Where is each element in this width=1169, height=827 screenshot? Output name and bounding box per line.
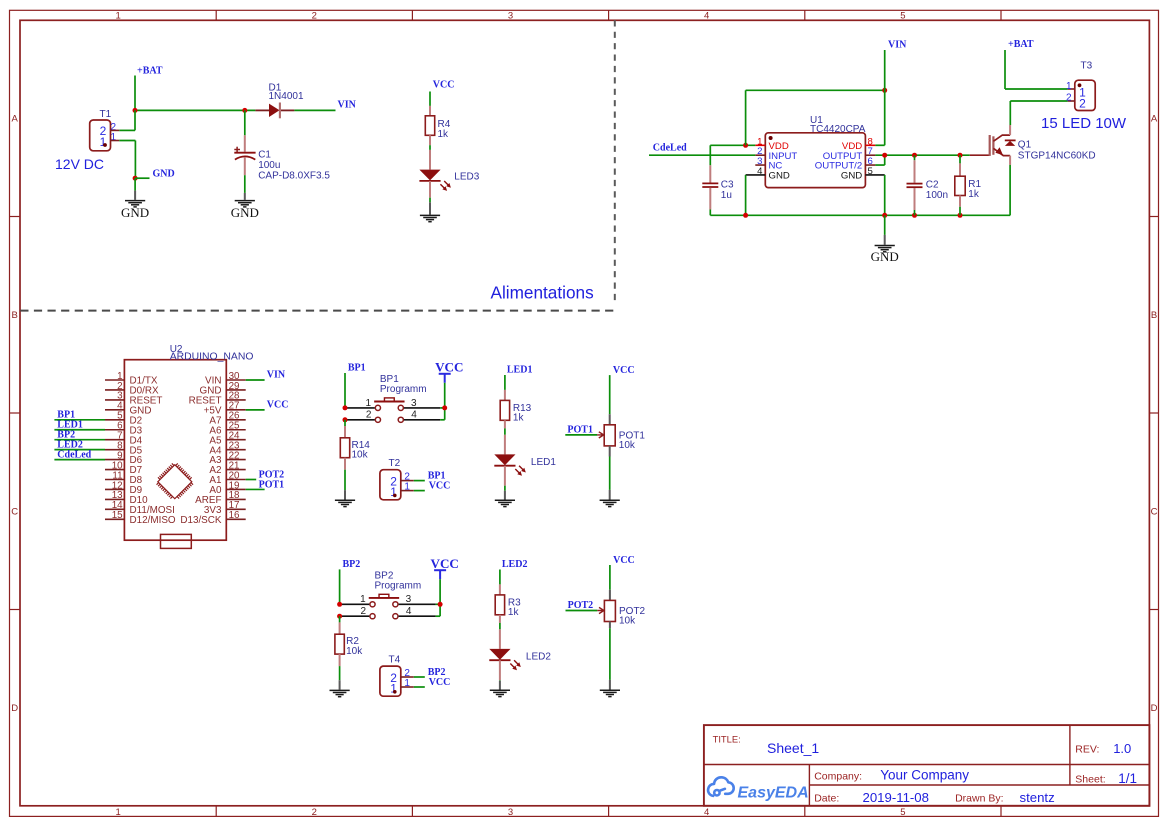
svg-text:POT2: POT2 — [568, 600, 594, 611]
svg-text:1k: 1k — [438, 129, 450, 140]
button contact wires — [345, 408, 445, 420]
wire GND stub — [135, 177, 149, 179]
svg-text:A: A — [12, 114, 19, 125]
svg-text:3: 3 — [508, 11, 513, 22]
connector T4 — [380, 655, 414, 697]
svg-text:2: 2 — [312, 11, 317, 22]
net label CdeLed (U2) — [57, 449, 91, 460]
net label VCC (T2) — [429, 481, 451, 492]
svg-text:C3: C3 — [721, 179, 734, 190]
svg-text:1u: 1u — [721, 190, 732, 201]
wire diode to VIN — [294, 109, 335, 111]
svg-text:CAP-D8.0XF3.5: CAP-D8.0XF3.5 — [258, 171, 330, 182]
svg-text:VCC: VCC — [429, 677, 451, 688]
svg-text:2: 2 — [312, 807, 317, 818]
wire net POT1 (U2 pin19) — [246, 488, 265, 490]
wire U1 pin5 to gnd rail — [884, 175, 886, 215]
svg-text:VIN: VIN — [267, 369, 286, 380]
net label BP1 (button) — [348, 363, 366, 374]
Q1 emitter lead and wire to rail — [1009, 156, 1011, 216]
resistor R14 10k — [340, 420, 370, 470]
svg-text:4: 4 — [704, 807, 709, 818]
U1 pin 4 stub — [746, 174, 766, 176]
potentiometer POT2 10k — [597, 590, 645, 629]
net label BP2 (button) — [343, 559, 361, 570]
svg-text:15: 15 — [112, 510, 123, 521]
junction at +BAT/main — [133, 108, 138, 113]
svg-text:Sheet:: Sheet: — [1075, 774, 1105, 786]
junction rail R1 — [958, 213, 963, 218]
wire net VIN (U2 pin30) — [246, 379, 265, 381]
wire net POT2 (U2 pin20) — [246, 479, 257, 481]
op-amp driver U1 TC4420CPA — [757, 115, 873, 188]
svg-text:POT1: POT1 — [259, 479, 285, 490]
ground symbol R14 — [335, 470, 355, 507]
junction GND node — [133, 176, 138, 181]
net label VCC (POT1) — [613, 365, 635, 376]
svg-text:Drawn By:: Drawn By: — [955, 793, 1003, 805]
net label VIN (U1) — [888, 39, 907, 50]
svg-text:ARDUINO_NANO: ARDUINO_NANO — [170, 351, 254, 362]
junction output/2 — [882, 153, 887, 158]
svg-text:2019-11-08: 2019-11-08 — [863, 790, 929, 805]
resistor R4 1k — [425, 106, 450, 145]
net label CdeLed (U1) — [653, 143, 687, 154]
svg-text:A: A — [1151, 114, 1158, 125]
svg-text:LED2: LED2 — [502, 559, 528, 570]
U1 pin 8 stub — [865, 144, 884, 146]
net label POT1 (wiper) — [567, 424, 593, 435]
svg-text:1: 1 — [404, 678, 410, 689]
junction button right — [438, 602, 443, 607]
svg-text:VCC: VCC — [267, 399, 289, 410]
svg-text:1: 1 — [115, 11, 120, 22]
svg-text:D13/SCK: D13/SCK — [180, 515, 222, 526]
net label LED2 (U2) — [57, 439, 83, 450]
ground symbol LED1 — [495, 486, 515, 507]
wire T1 pin2 to +BAT — [119, 110, 135, 130]
svg-text:T1: T1 — [100, 109, 112, 120]
wire CdeLed to U1 pin2 — [649, 154, 755, 156]
button contact wires — [340, 604, 441, 616]
resistor R1 1k — [955, 155, 982, 215]
svg-text:1k: 1k — [513, 413, 525, 424]
svg-text:2: 2 — [1079, 96, 1086, 110]
U1 pin 1 stub — [755, 144, 765, 146]
wire BP2 vertical — [339, 569, 341, 604]
svg-text:GND: GND — [231, 205, 259, 220]
svg-text:VIN: VIN — [338, 99, 357, 110]
power symbol VCC (button) — [435, 359, 463, 382]
junction pin1/VDD — [743, 143, 748, 148]
net label LED1 (U2) — [57, 420, 83, 431]
wire R13 to LED1 LED — [504, 428, 506, 434]
U1 pin 2 stub — [755, 154, 765, 156]
junction button left 1 — [343, 405, 348, 410]
svg-text:C: C — [11, 507, 18, 518]
net label VCC (U2) — [267, 399, 289, 410]
wire U1 pin1 VDD left — [710, 144, 755, 146]
wire BP1 vertical — [344, 373, 346, 408]
transistor Q1 STGP14NC60KD IGBT — [970, 135, 1096, 161]
wire VCC to POT2 — [609, 565, 611, 590]
net label POT2 (wiper) — [568, 600, 594, 611]
wire net BP1 (U2 pin 5) — [54, 419, 105, 421]
capacitor C2 100n — [907, 155, 949, 215]
wire T1 pin1 to GND — [119, 141, 135, 179]
svg-text:1: 1 — [115, 807, 120, 818]
svg-text:GND: GND — [121, 205, 149, 220]
wire T4 pin2 — [414, 676, 425, 678]
svg-text:Your Company: Your Company — [880, 768, 969, 783]
wire R3 to LED2 LED — [499, 623, 501, 629]
ground symbol C1 with GND text — [231, 175, 259, 220]
label Alimentations — [491, 283, 594, 303]
wire net LED1 (U2 pin 6) — [54, 429, 105, 431]
ground symbol T1 with GND text — [121, 178, 149, 220]
svg-text:3: 3 — [508, 807, 513, 818]
svg-text:1/1: 1/1 — [1118, 771, 1137, 786]
svg-text:VCC: VCC — [431, 556, 459, 571]
svg-text:T2: T2 — [389, 458, 401, 469]
net label POT2 (U2) — [259, 470, 285, 481]
net label VIN — [338, 99, 357, 110]
potentiometer POT1 10k — [597, 414, 645, 456]
capacitor C1 100u polarized — [234, 110, 330, 181]
net label LED1 (column) — [507, 364, 533, 375]
wire +BAT to T3 pin1 — [1005, 50, 1068, 89]
svg-text:REV:: REV: — [1075, 744, 1099, 756]
svg-text:TITLE:: TITLE: — [713, 733, 741, 744]
junction rail C3 — [743, 213, 748, 218]
svg-text:BP2: BP2 — [343, 559, 361, 570]
ground symbol POT1 — [600, 500, 620, 506]
microcontroller U2 ARDUINO_NANO — [105, 344, 253, 540]
svg-text:Programm: Programm — [380, 384, 427, 395]
wire net VCC (U2 pin27) — [246, 409, 265, 411]
resistor R3 1k — [495, 584, 521, 623]
svg-text:POT1: POT1 — [567, 424, 593, 435]
svg-text:2: 2 — [1066, 93, 1072, 104]
wire T2 pin2 — [414, 480, 425, 482]
svg-text:LED1: LED1 — [531, 457, 556, 468]
U2 usb tab — [161, 534, 192, 548]
net label LED2 (column) — [502, 559, 528, 570]
svg-text:10k: 10k — [352, 450, 369, 461]
Q1 collector lead — [1009, 125, 1011, 135]
svg-text:1k: 1k — [968, 189, 980, 200]
junction output C2 — [912, 153, 917, 158]
wire T4 pin1 — [414, 686, 425, 688]
svg-text:VCC: VCC — [435, 359, 463, 374]
net label BP1 (U2) — [57, 410, 75, 421]
svg-text:GND: GND — [769, 171, 790, 182]
LED LED3 — [419, 150, 479, 198]
svg-text:LED2: LED2 — [526, 651, 551, 662]
svg-text:STGP14NC60KD: STGP14NC60KD — [1018, 150, 1096, 161]
U1 pin 3 stub (NC) — [755, 164, 765, 166]
wire T2 pin1 — [414, 490, 425, 492]
pushbutton BP1 Programm — [366, 374, 427, 423]
junction rail gnd — [882, 213, 887, 218]
svg-text:1: 1 — [111, 132, 117, 143]
svg-text:100n: 100n — [926, 190, 948, 201]
svg-text:CdeLed: CdeLed — [653, 143, 687, 154]
connector T3 15 LED 10W — [1041, 60, 1127, 132]
wire VIN vertical — [884, 50, 886, 145]
svg-text:Programm: Programm — [375, 580, 422, 591]
wire T3 pin2 to Q1 collector — [1010, 101, 1068, 125]
junction button right — [442, 405, 447, 410]
svg-text:1: 1 — [390, 681, 397, 695]
svg-text:B: B — [1151, 310, 1157, 321]
wire VCC to R4 — [429, 92, 431, 106]
connector T1 12V DC — [55, 109, 119, 172]
svg-text:D12/MISO: D12/MISO — [130, 515, 176, 526]
wire wiper POT1 — [565, 434, 597, 436]
svg-text:Alimentations: Alimentations — [491, 283, 594, 303]
wire LED1 to R13 — [504, 375, 506, 390]
junction button left 2 — [343, 417, 348, 422]
junction VIN top — [882, 88, 887, 93]
svg-text:T3: T3 — [1081, 60, 1093, 71]
svg-text:VCC: VCC — [613, 365, 635, 376]
junction output R1 — [958, 153, 963, 158]
svg-text:EasyEDA: EasyEDA — [738, 784, 809, 801]
svg-text:10k: 10k — [619, 616, 636, 627]
diode D1 1N4001 — [255, 83, 304, 119]
capacitor C3 1u — [702, 145, 734, 215]
svg-text:15 LED 10W: 15 LED 10W — [1041, 115, 1127, 132]
ground symbol U1 with GND text — [871, 215, 899, 264]
wire VCC to POT1 — [609, 375, 611, 414]
wire U1 pin4 to gnd rail — [745, 175, 747, 215]
svg-text:B: B — [12, 310, 18, 321]
junction rail C2 — [912, 213, 917, 218]
svg-text:VCC: VCC — [613, 555, 635, 566]
net label +BAT (T3) — [1008, 39, 1034, 50]
svg-text:16: 16 — [229, 510, 240, 521]
junction button left 1 — [337, 602, 342, 607]
wire wiper POT2 — [566, 610, 598, 612]
wire OUTPUT net — [875, 155, 969, 165]
svg-text:C: C — [1151, 507, 1158, 518]
svg-text:1k: 1k — [508, 607, 520, 618]
ground symbol POT2 — [600, 690, 620, 696]
svg-text:1: 1 — [1066, 81, 1072, 92]
svg-text:CdeLed: CdeLed — [57, 449, 91, 460]
resistor R2 10k — [335, 616, 363, 666]
svg-text:1.0: 1.0 — [1113, 741, 1131, 756]
svg-text:VCC: VCC — [429, 481, 451, 492]
net label +BAT — [137, 66, 163, 77]
svg-text:C1: C1 — [258, 150, 271, 161]
svg-text:GND: GND — [153, 169, 175, 180]
svg-text:BP1: BP1 — [348, 363, 366, 374]
net label BP1 (T2) — [428, 471, 446, 482]
title block — [704, 725, 1150, 806]
net label VIN (U2) — [267, 369, 286, 380]
wire POT2 to ground — [609, 628, 611, 689]
junction button left 2 — [337, 614, 342, 619]
svg-text:GND: GND — [871, 249, 899, 264]
net label VCC (T4) — [429, 677, 451, 688]
U1 pin 5 stub — [865, 174, 884, 176]
wire POT1 to ground — [609, 457, 611, 500]
net label BP2 (U2) — [57, 430, 75, 441]
wire net BP2 (U2 pin 7) — [54, 439, 105, 441]
ground symbol LED3 — [420, 198, 440, 222]
U1 pin 7 stub — [865, 154, 875, 156]
svg-text:10k: 10k — [619, 440, 636, 451]
power symbol VCC (button) — [431, 556, 459, 579]
svg-text:D: D — [11, 703, 18, 714]
svg-text:T4: T4 — [389, 655, 401, 666]
net label GND (T1) — [153, 169, 175, 180]
svg-text:1: 1 — [390, 485, 397, 499]
U1 pin 6 stub — [865, 164, 884, 166]
LED LED1 — [494, 435, 556, 486]
wire gnd rail U1 section — [710, 214, 1010, 216]
svg-text:C2: C2 — [926, 179, 939, 190]
svg-text:12V DC: 12V DC — [55, 156, 104, 172]
wire net CdeLed (U2 pin 9) — [54, 459, 105, 461]
svg-text:+BAT: +BAT — [137, 66, 163, 77]
net label VCC (R4 column) — [433, 80, 455, 91]
net label VCC (POT2) — [613, 555, 635, 566]
svg-text:5: 5 — [900, 807, 905, 818]
U2 chip icon — [154, 460, 196, 502]
ground symbol R2 — [330, 666, 350, 697]
LED LED2 — [489, 629, 551, 680]
svg-text:Sheet_1: Sheet_1 — [767, 740, 819, 756]
svg-text:100u: 100u — [258, 160, 280, 171]
svg-text:LED1: LED1 — [507, 364, 533, 375]
wire VDD up and across to VIN — [746, 90, 885, 145]
svg-text:Date:: Date: — [814, 793, 839, 805]
region separator dashed line — [20, 20, 615, 310]
net label BP2 (T4) — [428, 667, 446, 678]
svg-text:Company:: Company: — [814, 770, 862, 782]
svg-text:4: 4 — [704, 11, 709, 22]
net label POT1 (U2) — [259, 479, 285, 490]
junction at C1 branch — [242, 108, 247, 113]
svg-text:+BAT: +BAT — [1008, 39, 1034, 50]
wire LED2 to R3 — [499, 570, 501, 585]
svg-text:GND: GND — [841, 171, 862, 182]
svg-text:stentz: stentz — [1020, 790, 1055, 805]
wire main horizontal to diode — [135, 109, 255, 111]
ground symbol LED2 — [490, 680, 510, 696]
svg-text:VCC: VCC — [433, 80, 455, 91]
connector T2 — [380, 458, 414, 500]
wire +BAT vertical — [134, 76, 136, 111]
svg-text:5: 5 — [900, 11, 905, 22]
svg-text:1: 1 — [404, 481, 410, 492]
svg-text:Q1: Q1 — [1018, 140, 1032, 151]
svg-text:D: D — [1151, 703, 1158, 714]
EasyEDA logo — [708, 777, 809, 801]
svg-text:VIN: VIN — [888, 39, 907, 50]
svg-text:LED3: LED3 — [454, 171, 479, 182]
resistor R13 1k — [500, 390, 531, 429]
wire VCC vertical (button) — [439, 579, 441, 616]
svg-text:1N4001: 1N4001 — [269, 91, 304, 102]
svg-text:TC4420CPA: TC4420CPA — [810, 124, 866, 135]
svg-text:10k: 10k — [346, 646, 363, 657]
wire VCC vertical (button) — [444, 383, 446, 420]
wire net LED2 (U2 pin 8) — [54, 449, 105, 451]
pushbutton BP2 Programm — [360, 570, 421, 619]
wire R4 to LED3 — [429, 145, 431, 150]
